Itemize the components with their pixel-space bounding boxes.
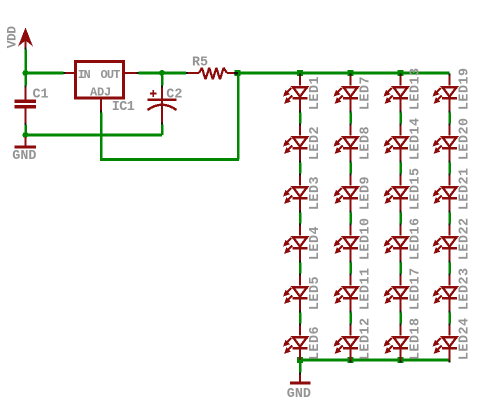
LED1: [283, 74, 308, 113]
svg-text:GND: GND: [287, 387, 311, 402]
wire LED8 cathode to LED9 anode: [349, 163, 352, 174]
svg-text:LED13: LED13: [409, 67, 424, 110]
svg-text:LED7: LED7: [359, 76, 374, 110]
junction top rail column 1: [297, 70, 303, 76]
LED17: [384, 274, 409, 313]
svg-text:OUT: OUT: [101, 68, 121, 82]
LED12: [334, 324, 359, 363]
wire LED4 cathode to LED5 anode: [299, 263, 302, 274]
wire LED13 cathode to LED14 anode: [399, 113, 402, 124]
svg-text:LED19: LED19: [458, 67, 473, 110]
LED16: [384, 224, 409, 263]
wire LED cathode bottom rail: [300, 359, 450, 362]
capacitor C2 polarized: [148, 88, 177, 125]
wire bottom rail to GND: [299, 360, 302, 375]
junction bottom rail column 1: [297, 357, 303, 363]
svg-text:C2: C2: [166, 88, 182, 103]
svg-text:LED9: LED9: [359, 176, 374, 210]
LED9: [334, 174, 359, 213]
svg-text:LED2: LED2: [308, 126, 323, 160]
svg-text:LED10: LED10: [359, 217, 374, 260]
svg-text:ADJ: ADJ: [90, 85, 111, 99]
wire node VIN to IC1 IN pin: [26, 72, 66, 75]
wire LED anode top rail: [238, 72, 450, 75]
wire ground rail C1 to C2: [26, 125, 163, 136]
LED7: [334, 74, 359, 113]
svg-text:C1: C1: [33, 88, 49, 103]
junction top rail column 3: [398, 70, 404, 76]
voltage regulator IC1: [66, 62, 137, 111]
junction node LEDV after R5: [234, 70, 240, 76]
wire node VOUT down to C2: [161, 76, 164, 88]
svg-text:LED18: LED18: [409, 317, 424, 360]
junction ground node at C1 bottom: [23, 132, 29, 138]
wire LED5 cathode to LED6 anode: [299, 313, 302, 324]
svg-text:IN: IN: [78, 68, 91, 82]
svg-text:LED4: LED4: [308, 226, 323, 260]
LED3: [283, 174, 308, 213]
LED18: [384, 324, 409, 363]
wire LED22 cathode to LED23 anode: [448, 263, 451, 274]
svg-text:LED24: LED24: [458, 317, 473, 360]
wire LED10 cathode to LED11 anode: [349, 263, 352, 274]
ground symbol GND matrix: [290, 375, 311, 383]
LED19: [433, 74, 458, 113]
junction node VOUT at C2 top: [159, 70, 165, 76]
wire LED15 cathode to LED16 anode: [399, 213, 402, 224]
LED6: [283, 324, 308, 363]
wire LED14 cathode to LED15 anode: [399, 163, 402, 174]
svg-text:LED6: LED6: [308, 326, 323, 360]
wire LED9 cathode to LED10 anode: [349, 213, 352, 224]
junction node VIN at C1 top: [23, 70, 29, 76]
svg-text:LED16: LED16: [409, 217, 424, 260]
wire LED17 cathode to LED18 anode: [399, 313, 402, 324]
ground symbol GND input side: [15, 137, 37, 147]
LED21: [433, 174, 458, 213]
junction top rail column 2: [348, 70, 354, 76]
wire VDD to node VIN: [25, 48, 27, 74]
LED8: [334, 124, 359, 163]
svg-text:LED5: LED5: [308, 276, 323, 310]
LED11: [334, 274, 359, 313]
LED4: [283, 224, 308, 263]
wire LED16 cathode to LED17 anode: [399, 263, 402, 274]
wire LED19 cathode to LED20 anode: [448, 113, 451, 124]
svg-text:LED12: LED12: [359, 317, 374, 360]
wire LED23 cathode to LED24 anode: [448, 313, 451, 324]
capacitor C1: [15, 88, 37, 126]
LED22: [433, 224, 458, 263]
LED23: [433, 274, 458, 313]
svg-text:LED1: LED1: [308, 76, 323, 110]
junction bottom rail column 3: [398, 357, 404, 363]
wire LED20 cathode to LED21 anode: [448, 163, 451, 174]
svg-text:IC1: IC1: [112, 100, 135, 115]
svg-text:LED17: LED17: [409, 267, 424, 310]
LED15: [384, 174, 409, 213]
LED13: [384, 74, 409, 113]
wire ADJ feedback loop: [100, 74, 239, 160]
wire LED21 cathode to LED22 anode: [448, 213, 451, 224]
LED14: [384, 124, 409, 163]
svg-text:LED14: LED14: [409, 117, 424, 160]
LED20: [433, 124, 458, 163]
svg-text:LED15: LED15: [409, 167, 424, 210]
wire LED1 cathode to LED2 anode: [299, 113, 302, 124]
svg-text:LED8: LED8: [359, 126, 374, 160]
wire LED3 cathode to LED4 anode: [299, 213, 302, 224]
resistor R5: [188, 68, 236, 80]
LED2: [283, 124, 308, 163]
power symbol VDD: [18, 28, 33, 48]
svg-text:LED11: LED11: [359, 267, 374, 310]
svg-text:LED3: LED3: [308, 176, 323, 210]
LED5: [283, 274, 308, 313]
LED24: [433, 324, 458, 363]
svg-text:VDD: VDD: [4, 26, 19, 49]
svg-text:GND: GND: [12, 149, 36, 164]
svg-text:LED22: LED22: [458, 217, 473, 260]
svg-text:R5: R5: [192, 56, 208, 71]
svg-text:LED21: LED21: [458, 167, 473, 210]
wire LED2 cathode to LED3 anode: [299, 163, 302, 174]
svg-text:LED23: LED23: [458, 267, 473, 310]
junction bottom rail column 2: [348, 357, 354, 363]
wire node VIN down to C1: [24, 73, 27, 88]
wire LED7 cathode to LED8 anode: [349, 113, 352, 124]
LED10: [334, 224, 359, 263]
wire LED11 cathode to LED12 anode: [349, 313, 352, 324]
wire C1 to ground junction: [24, 125, 27, 135]
wire IC1 OUT to node VOUT: [137, 72, 189, 74]
svg-text:LED20: LED20: [458, 117, 473, 160]
